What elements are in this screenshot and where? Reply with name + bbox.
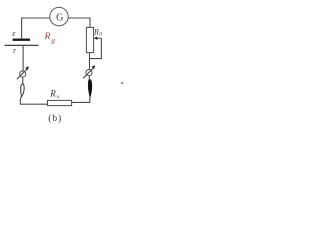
label R0 — [93, 28, 102, 38]
wire slider loop — [90, 38, 102, 58]
svg-text:R: R — [44, 32, 51, 42]
wire bottom-left corner — [20, 97, 48, 105]
rheostat R0 body — [86, 27, 93, 52]
wire bottom-right corner — [72, 97, 90, 103]
svg-text:G: G — [56, 12, 63, 23]
wire below battery — [22, 46, 24, 71]
wire right vertical (rheostat bottom to circle) — [89, 53, 91, 70]
probe contact right (circle with slider arrow) — [83, 65, 95, 78]
svg-text:0: 0 — [99, 32, 102, 38]
battery cell: long thin positive plate — [5, 44, 39, 46]
probe tip left (outlined spindle) — [21, 83, 25, 97]
probe tip right (filled spindle) — [88, 79, 92, 98]
rheostat slider arrow — [94, 37, 102, 40]
battery cell: short thick negative plate — [13, 39, 30, 41]
wire left vertical (top corner to battery) — [21, 18, 23, 39]
galvanometer G — [50, 7, 68, 25]
wire top-right segment — [68, 17, 90, 19]
wire top-left segment — [22, 17, 50, 19]
svg-text:g: g — [51, 36, 55, 44]
svg-text:(b): (b) — [48, 113, 62, 124]
resistor Rx box — [48, 100, 72, 105]
wire circle to left probe tip — [22, 77, 24, 84]
wire top-right vertical — [89, 18, 91, 28]
wire right circle to probe tip — [88, 76, 90, 80]
label Rx — [49, 88, 60, 100]
stray mark right edge — [121, 82, 124, 84]
probe contact left (circle with slider arrow) — [17, 66, 29, 79]
svg-text:R: R — [49, 88, 56, 98]
label Rg — [44, 32, 56, 44]
svg-text:R: R — [93, 28, 99, 37]
